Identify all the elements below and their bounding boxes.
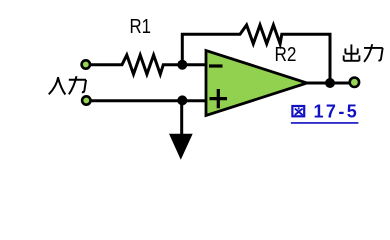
svg-text:R1: R1 xyxy=(130,16,152,38)
op-amp inverting input minus sign xyxy=(209,64,223,67)
output terminal xyxy=(350,78,359,87)
wire: ground stem from node B xyxy=(180,101,183,137)
label 入力 (input) drawn as strokes xyxy=(49,76,86,94)
svg-text:17-5: 17-5 xyxy=(314,102,360,122)
node B: junction of non-inverting input and ground xyxy=(177,95,187,105)
figure label 図 17-5 (blue link) xyxy=(291,102,359,123)
input terminal (top) xyxy=(82,60,90,68)
op-amp non-inverting input plus sign xyxy=(210,89,228,108)
wire: bottom input wire to op-amp non-inverting input xyxy=(91,99,206,102)
wire: top input wire with R1 zigzag from input terminal to op-amp inverting input xyxy=(91,55,207,74)
node C: output junction with feedback xyxy=(325,78,335,88)
node A: junction of R1, feedback and inverting input xyxy=(177,60,187,70)
ground symbol xyxy=(170,134,192,158)
label 出力 (output) drawn as strokes xyxy=(344,44,383,62)
op-amp U1 body xyxy=(206,51,307,116)
wire: output wire from op-amp apex to output terminal xyxy=(306,82,350,85)
input terminal (bottom) xyxy=(82,96,90,104)
svg-text:R2: R2 xyxy=(275,44,297,66)
wire: feedback loop (up from node A, across top through R2 zigzag, down to output node) xyxy=(182,25,330,83)
